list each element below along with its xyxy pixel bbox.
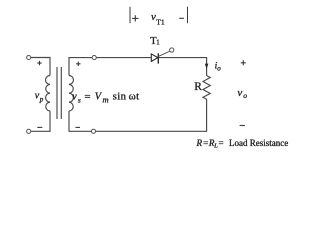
- svg-text:L: L: [213, 143, 218, 150]
- svg-text:=: =: [84, 91, 90, 103]
- svg-text:R: R: [194, 81, 202, 93]
- svg-text:1: 1: [156, 39, 160, 47]
- svg-text:sin: sin: [113, 91, 127, 103]
- svg-text:=: =: [203, 138, 208, 148]
- svg-text:V: V: [95, 92, 103, 103]
- svg-text:o: o: [217, 65, 221, 73]
- svg-text:s: s: [78, 96, 81, 105]
- svg-text:o: o: [243, 91, 247, 100]
- svg-text:v: v: [237, 87, 242, 99]
- svg-text:ωt: ωt: [129, 91, 140, 103]
- svg-text:v: v: [72, 92, 77, 103]
- svg-text:=: =: [219, 138, 224, 148]
- svg-text:p: p: [39, 95, 44, 103]
- svg-text:Load Resistance: Load Resistance: [229, 138, 288, 148]
- svg-text:T1: T1: [156, 17, 165, 26]
- svg-text:R: R: [196, 138, 203, 148]
- svg-text:v: v: [151, 11, 156, 23]
- svg-text:m: m: [103, 95, 109, 105]
